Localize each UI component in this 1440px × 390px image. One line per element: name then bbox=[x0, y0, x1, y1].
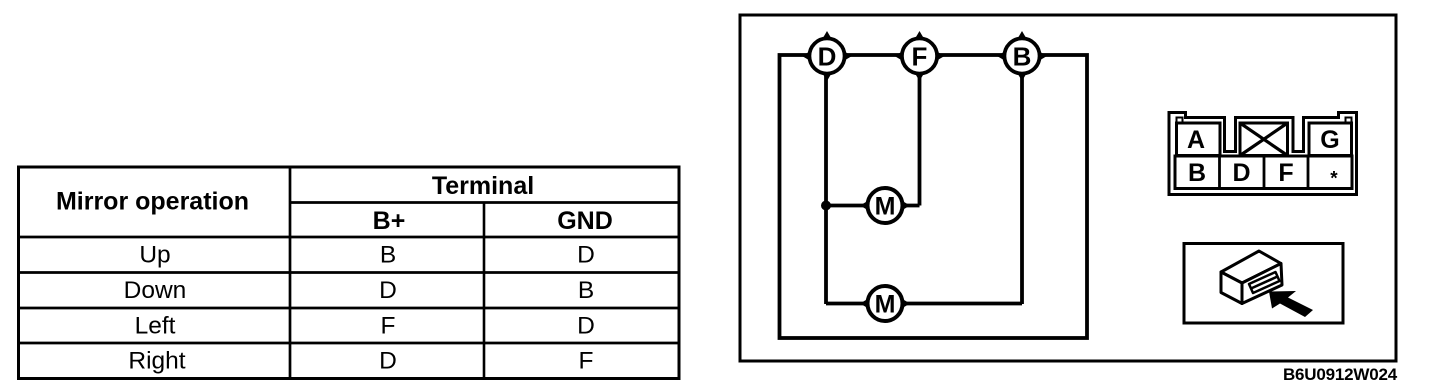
svg-text:M: M bbox=[875, 291, 896, 319]
svg-text:GND: GND bbox=[557, 207, 613, 235]
svg-text:D: D bbox=[577, 242, 595, 269]
svg-text:Up: Up bbox=[139, 242, 170, 269]
svg-text:B: B bbox=[1188, 159, 1206, 187]
svg-text:D: D bbox=[1232, 159, 1250, 187]
svg-text:A: A bbox=[1187, 126, 1205, 154]
svg-text:B+: B+ bbox=[373, 207, 406, 235]
svg-text:Left: Left bbox=[135, 313, 176, 340]
svg-text:B: B bbox=[578, 277, 594, 304]
svg-text:M: M bbox=[875, 193, 896, 221]
svg-text:F: F bbox=[1278, 159, 1293, 187]
svg-text:F: F bbox=[381, 313, 396, 340]
svg-text:B6U0912W024: B6U0912W024 bbox=[1283, 365, 1398, 384]
svg-text:*: * bbox=[1330, 169, 1338, 190]
svg-text:D: D bbox=[379, 277, 397, 304]
svg-text:Down: Down bbox=[124, 277, 187, 304]
svg-text:F: F bbox=[912, 42, 928, 72]
svg-text:D: D bbox=[577, 313, 595, 340]
svg-text:D: D bbox=[818, 42, 837, 72]
svg-text:Right: Right bbox=[128, 348, 185, 375]
svg-text:B: B bbox=[380, 242, 396, 269]
svg-text:D: D bbox=[379, 348, 397, 375]
svg-text:Terminal: Terminal bbox=[432, 172, 534, 200]
svg-text:Mirror operation: Mirror operation bbox=[56, 188, 249, 216]
svg-text:F: F bbox=[579, 348, 594, 375]
svg-text:B: B bbox=[1013, 42, 1032, 72]
svg-text:G: G bbox=[1320, 126, 1339, 154]
